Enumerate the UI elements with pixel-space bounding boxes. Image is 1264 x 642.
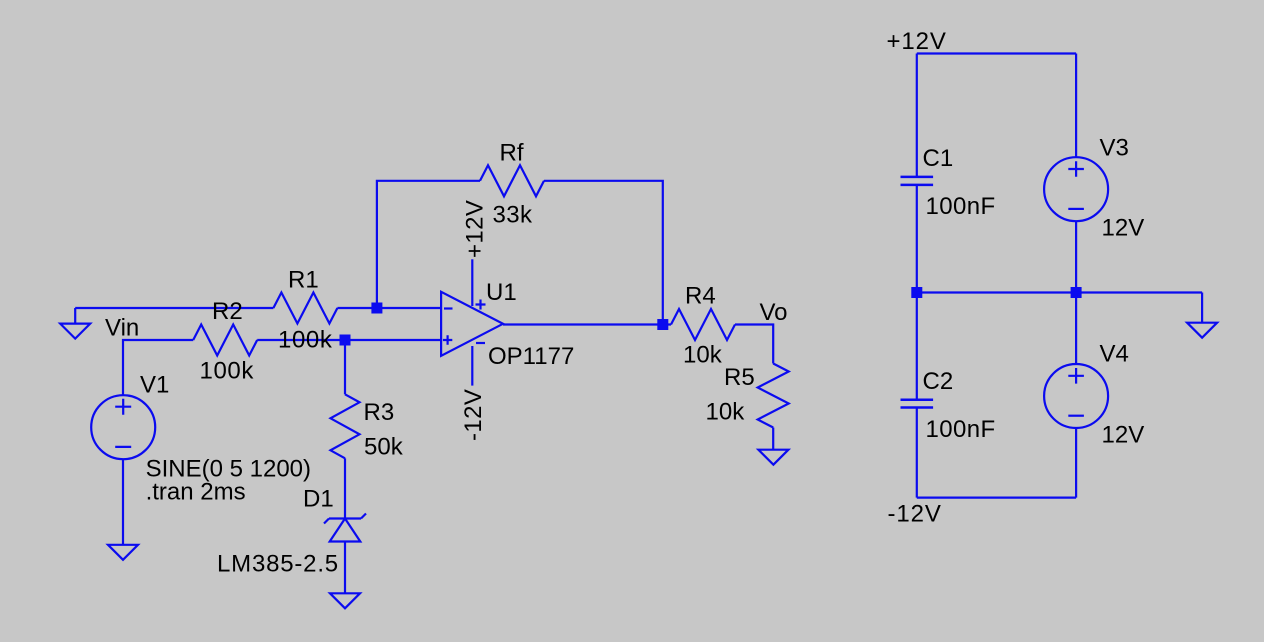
svg-text:+12V: +12V xyxy=(462,200,489,258)
wire -12V rail bottom xyxy=(917,497,1076,499)
ground GND1 (left, Vin net) xyxy=(60,308,90,339)
U1 V- minus marker xyxy=(476,342,485,344)
resistor R5 xyxy=(758,364,789,428)
wire mid rail horizontal xyxy=(917,291,1202,293)
svg-text:R4: R4 xyxy=(685,283,716,310)
svg-text:R3: R3 xyxy=(364,399,395,426)
svg-text:C2: C2 xyxy=(923,368,954,395)
node junction output / Rf / R4 xyxy=(657,319,668,330)
U1 V+ power pin wire xyxy=(471,259,473,306)
U1 non-inverting input marker xyxy=(443,335,452,344)
svg-text:V3: V3 xyxy=(1100,135,1129,162)
V1 minus marker xyxy=(115,446,131,448)
svg-text:R1: R1 xyxy=(288,267,319,294)
wire upper net left segment xyxy=(75,307,273,309)
V3 minus marker xyxy=(1068,208,1084,210)
wire V4 top xyxy=(1075,293,1077,365)
svg-text:100k: 100k xyxy=(278,327,333,354)
wire V3 top xyxy=(1075,54,1077,158)
svg-text:100nF: 100nF xyxy=(926,193,996,220)
wire D1 to ground xyxy=(344,542,346,594)
svg-text:Vin: Vin xyxy=(105,315,139,342)
svg-text:33k: 33k xyxy=(493,202,533,229)
svg-text:V4: V4 xyxy=(1100,341,1129,368)
svg-text:Rf: Rf xyxy=(500,140,524,167)
wire lower net: V1 up and right xyxy=(123,340,193,395)
V4 minus marker xyxy=(1068,415,1084,417)
svg-text:10k: 10k xyxy=(683,342,723,369)
svg-text:-12V: -12V xyxy=(888,501,942,528)
wire R5 to ground xyxy=(772,428,774,450)
wire mid rail to C2 xyxy=(916,293,918,400)
svg-text:.tran 2ms: .tran 2ms xyxy=(146,479,246,506)
wire lower net right segment xyxy=(257,339,441,341)
wire output net xyxy=(503,323,671,325)
svg-text:12V: 12V xyxy=(1102,215,1145,242)
svg-text:OP1177: OP1177 xyxy=(488,343,574,370)
resistor R3 xyxy=(331,394,360,458)
svg-text:U1: U1 xyxy=(486,279,517,306)
ground GND3 (below D1) xyxy=(330,593,360,608)
wire V4 bottom xyxy=(1075,428,1077,498)
V4 plus marker xyxy=(1068,368,1084,384)
wire C1 to mid rail xyxy=(916,185,918,293)
U1 V+ plus marker xyxy=(476,300,486,310)
resistor Rf xyxy=(480,165,544,196)
svg-text:50k: 50k xyxy=(364,434,404,461)
wire upper net right segment xyxy=(337,307,441,309)
svg-text:100nF: 100nF xyxy=(926,416,996,443)
wire Rf right to output node xyxy=(544,181,663,325)
ground GND4 (below R5) xyxy=(758,450,788,465)
wire mid rail to ground xyxy=(1201,293,1203,323)
voltage source V1 circle xyxy=(91,395,155,459)
svg-text:R5: R5 xyxy=(724,364,755,391)
wire left branch top (to C1) xyxy=(916,54,918,177)
voltage source V3 circle xyxy=(1044,157,1108,221)
svg-text:R2: R2 xyxy=(212,298,243,325)
svg-text:LM385-2.5: LM385-2.5 xyxy=(217,551,339,578)
node junction mid rail right xyxy=(1071,287,1082,298)
resistor R1 xyxy=(273,293,337,324)
svg-text:C1: C1 xyxy=(923,145,954,172)
svg-text:Vo: Vo xyxy=(760,299,788,326)
V1 plus marker xyxy=(115,399,131,415)
node junction lower net / R3 xyxy=(340,335,351,346)
capacitor C2 xyxy=(901,400,934,408)
svg-text:D1: D1 xyxy=(303,486,334,513)
capacitor C1 xyxy=(901,177,934,185)
wire R3 upper xyxy=(344,340,346,394)
svg-text:-12V: -12V xyxy=(460,389,487,441)
wire Rf loop: up, across, down xyxy=(377,181,480,308)
svg-text:+12V: +12V xyxy=(887,28,947,55)
node junction upper net / Rf xyxy=(371,303,382,314)
wire R4 to Vo corner and down xyxy=(735,325,773,364)
wire V3 bottom xyxy=(1075,221,1077,292)
wire V1 to ground xyxy=(122,459,124,545)
svg-text:100k: 100k xyxy=(200,358,255,385)
resistor R4 xyxy=(671,309,735,340)
U1 V- power pin wire xyxy=(471,346,473,386)
op-amp U1 triangle xyxy=(441,292,503,356)
svg-text:10k: 10k xyxy=(706,399,746,426)
resistor R2 xyxy=(193,325,257,356)
wire C2 to -12V rail xyxy=(916,408,918,498)
ground GND2 (below V1) xyxy=(108,545,138,560)
voltage source V4 circle xyxy=(1044,364,1108,428)
svg-text:V1: V1 xyxy=(140,372,169,399)
ground GND5 (right) xyxy=(1187,323,1217,338)
svg-text:12V: 12V xyxy=(1102,422,1145,449)
node junction mid rail left xyxy=(911,287,922,298)
wire +12V rail top xyxy=(917,52,1076,54)
U1 inverting input marker xyxy=(444,307,453,309)
wire R3 to D1 xyxy=(344,458,346,518)
V3 plus marker xyxy=(1068,161,1084,177)
zener diode D1 xyxy=(324,514,366,542)
